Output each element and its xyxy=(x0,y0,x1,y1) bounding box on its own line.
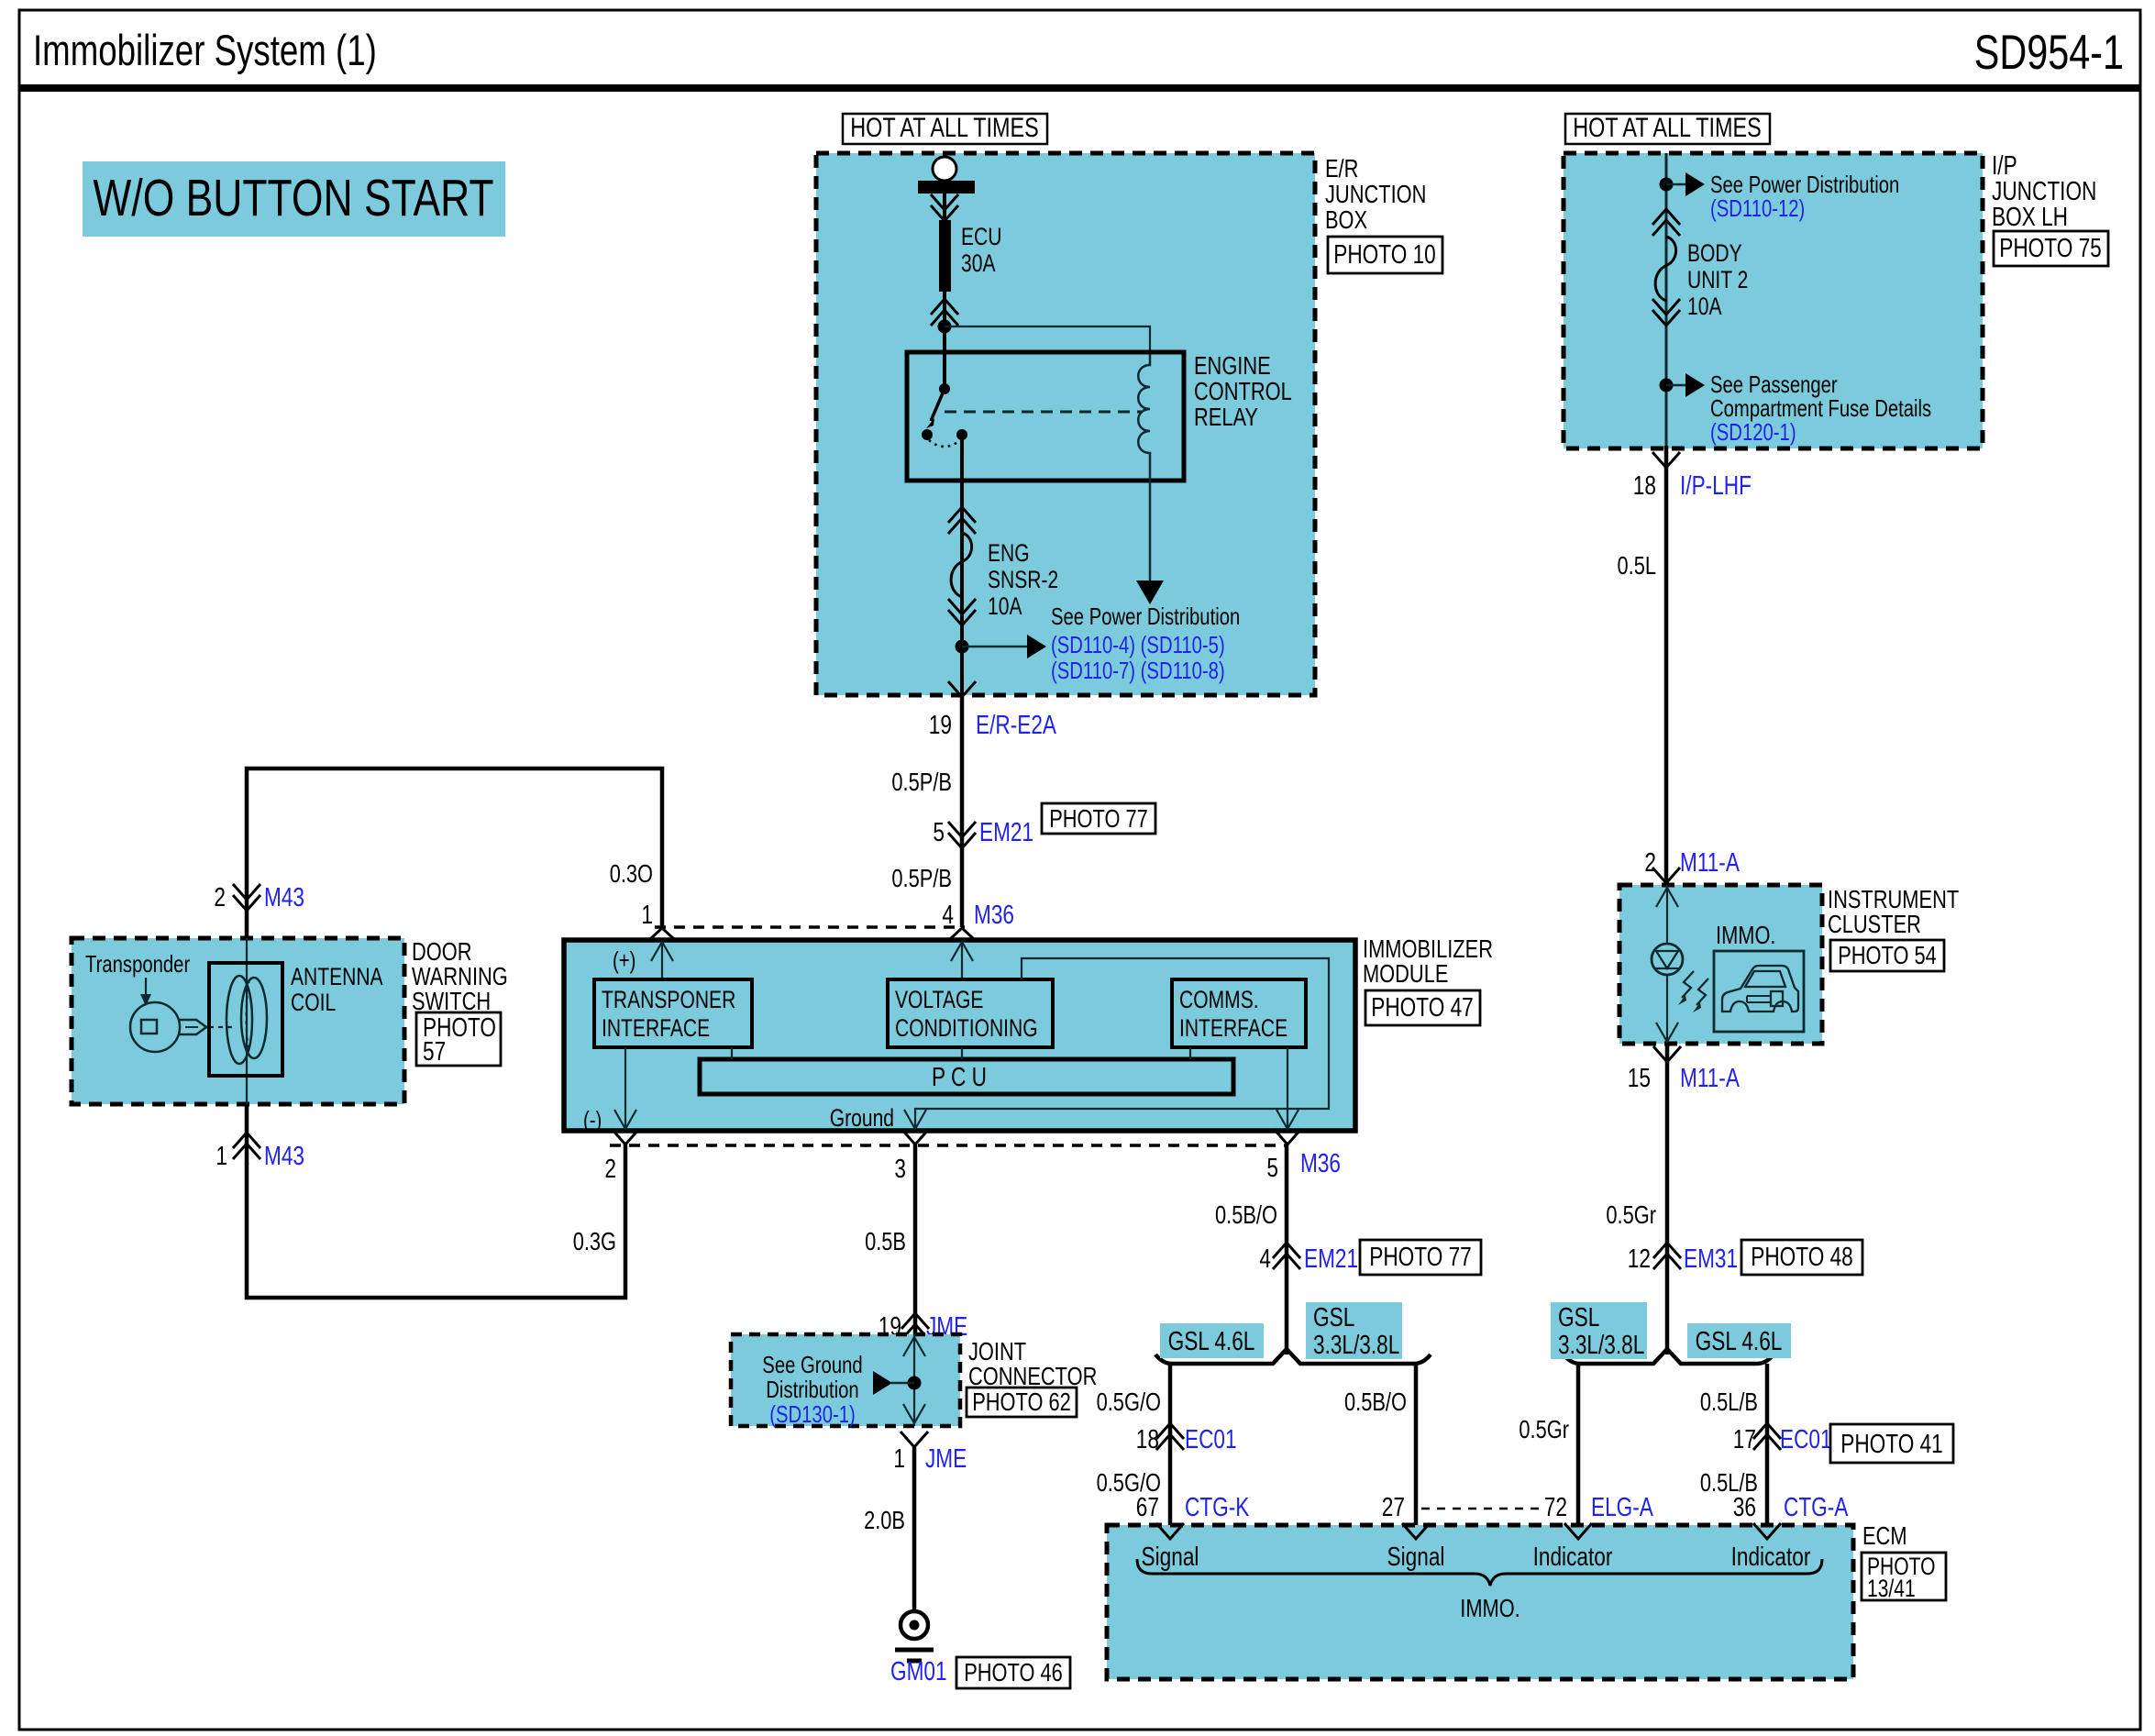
svg-text:0.5Gr: 0.5Gr xyxy=(1519,1415,1569,1443)
svg-text:HOT AT ALL TIMES: HOT AT ALL TIMES xyxy=(850,113,1039,143)
EM31 fork to GSL branches xyxy=(1564,1349,1774,1364)
wire pin2 loop to antenna xyxy=(247,1144,625,1298)
5 EM21 labels xyxy=(933,818,1033,847)
15 M11-A labels xyxy=(1628,1064,1741,1093)
svg-text:COIL: COIL xyxy=(291,989,336,1016)
svg-text:0.5P/B: 0.5P/B xyxy=(891,768,952,796)
svg-text:VOLTAGE: VOLTAGE xyxy=(895,986,983,1013)
transponer interface block xyxy=(594,979,752,1047)
svg-text:3.3L/3.8L: 3.3L/3.8L xyxy=(1313,1331,1399,1360)
svg-text:SD954-1: SD954-1 xyxy=(1974,26,2124,80)
svg-text:PHOTO 62: PHOTO 62 xyxy=(972,1388,1071,1416)
relay link dashed xyxy=(945,411,1143,414)
svg-text:57: 57 xyxy=(423,1037,446,1067)
svg-text:0.5B/O: 0.5B/O xyxy=(1344,1388,1407,1416)
svg-text:4: 4 xyxy=(942,901,954,930)
svg-text:(SD120-1): (SD120-1) xyxy=(1710,418,1796,446)
pin 5 chevron xyxy=(1274,1129,1301,1144)
connector 1 M43 chevrons xyxy=(233,1133,260,1159)
relay switch xyxy=(922,383,967,447)
svg-text:2: 2 xyxy=(604,1155,616,1184)
immobilizer module box xyxy=(564,940,1355,1131)
connector 2 M43 chevrons xyxy=(233,884,260,911)
ground distribution arrow and node xyxy=(873,1371,922,1395)
connector 18 EC01 chevrons xyxy=(1156,1423,1184,1450)
svg-text:CONNECTOR: CONNECTOR xyxy=(968,1362,1097,1390)
svg-text:1: 1 xyxy=(641,901,653,930)
svg-text:BOX: BOX xyxy=(1325,205,1367,234)
svg-text:(SD130-1): (SD130-1) xyxy=(769,1400,856,1428)
svg-text:2: 2 xyxy=(214,883,226,912)
see power distribution (SD110-12) xyxy=(1710,171,1899,222)
pin 5 M36 labels xyxy=(1266,1149,1341,1183)
svg-text:EM21: EM21 xyxy=(1304,1244,1358,1274)
HOT AT ALL TIMES label (right) xyxy=(1565,113,1770,144)
connector 5 EM21 chevrons xyxy=(948,822,976,848)
svg-text:3: 3 xyxy=(894,1155,906,1184)
chevron 2 M11-A xyxy=(1652,868,1680,883)
thin wire pin1 to transponer interface xyxy=(651,942,673,979)
wire cluster down to EM31 xyxy=(1665,1044,1670,1355)
relay coil xyxy=(1138,354,1150,481)
4 EM21 labels xyxy=(1259,1244,1358,1274)
PHOTO 77 label box (upper) xyxy=(1042,803,1155,834)
19 JME labels xyxy=(879,1312,967,1342)
1 JME labels xyxy=(893,1444,967,1474)
pin 3 chevron xyxy=(901,1129,929,1144)
HOT AT ALL TIMES label (center) xyxy=(843,113,1047,144)
wire fuse to relay xyxy=(943,292,946,389)
svg-text:36: 36 xyxy=(1733,1493,1756,1522)
svg-text:M36: M36 xyxy=(974,901,1014,930)
see ground distribution text xyxy=(762,1351,862,1428)
pin 2 chevron xyxy=(612,1129,639,1144)
svg-text:BOX LH: BOX LH xyxy=(1992,203,2068,232)
svg-text:I/P-LHF: I/P-LHF xyxy=(1680,471,1752,501)
thin wire LED to pin 15 xyxy=(1656,975,1678,1042)
arrow transponder to key xyxy=(140,978,151,1006)
svg-text:13/41: 13/41 xyxy=(1867,1575,1916,1602)
svg-text:SNSR-2: SNSR-2 xyxy=(988,566,1058,593)
svg-text:GSL 4.6L: GSL 4.6L xyxy=(1696,1327,1783,1356)
svg-text:(SD110-12): (SD110-12) xyxy=(1710,194,1805,222)
junction node I/P lower xyxy=(1660,379,1674,393)
svg-text:GSL: GSL xyxy=(1558,1303,1599,1332)
svg-text:M36: M36 xyxy=(1300,1149,1341,1178)
wire inside I/P box xyxy=(1665,153,1668,446)
svg-text:HOT AT ALL TIMES: HOT AT ALL TIMES xyxy=(1573,113,1762,143)
see power distribution text xyxy=(1051,603,1240,684)
svg-text:CTG-A: CTG-A xyxy=(1784,1493,1849,1522)
wire from antenna up and across to pin 1 xyxy=(247,768,662,938)
junction node xyxy=(938,320,952,334)
GSL 4.6L tag (right) xyxy=(1687,1323,1791,1358)
svg-text:TRANSPONER: TRANSPONER xyxy=(602,986,735,1013)
branch wire 72 ELG-A xyxy=(1576,1364,1581,1525)
transponder key symbol xyxy=(130,1002,206,1052)
arrow to power distribution (I/P) xyxy=(1666,172,1705,196)
svg-text:E/R: E/R xyxy=(1325,154,1358,182)
thin wire transponer (-) to pin 2 xyxy=(614,1047,636,1129)
pin 67 CTG-K labels xyxy=(1136,1493,1250,1522)
wire pin3 down to JME xyxy=(913,1144,918,1334)
svg-text:M43: M43 xyxy=(264,1142,304,1171)
svg-text:PHOTO 10: PHOTO 10 xyxy=(1333,240,1436,270)
wire JME to ground xyxy=(912,1447,917,1610)
junction node 2 xyxy=(956,640,969,654)
ECM box (dashed) xyxy=(1107,1525,1853,1679)
thin wire through coil box xyxy=(246,938,248,1104)
svg-text:P C U: P C U xyxy=(932,1063,987,1092)
joint connector box (dashed) xyxy=(731,1334,960,1426)
svg-text:GSL 4.6L: GSL 4.6L xyxy=(1168,1327,1255,1356)
svg-text:EC01: EC01 xyxy=(1185,1425,1237,1454)
connector chevrons below battery xyxy=(931,194,958,221)
svg-text:PHOTO 48: PHOTO 48 xyxy=(1751,1243,1853,1272)
arrow to power distribution xyxy=(962,635,1046,658)
svg-text:0.5B/O: 0.5B/O xyxy=(1215,1200,1277,1229)
wire coil to power-distribution arrow xyxy=(1149,481,1152,581)
thin wire comms to PCU xyxy=(1189,1047,1191,1059)
svg-text:67: 67 xyxy=(1136,1493,1159,1522)
svg-text:19: 19 xyxy=(929,711,952,740)
svg-text:Transponder: Transponder xyxy=(85,950,190,978)
svg-text:ANTENNA: ANTENNA xyxy=(291,963,383,990)
fuse ECU 30A xyxy=(939,220,1002,292)
svg-text:UNIT 2: UNIT 2 xyxy=(1687,266,1748,293)
svg-text:4: 4 xyxy=(1259,1244,1271,1274)
wire battery to fuse xyxy=(943,194,946,220)
svg-text:IMMO.: IMMO. xyxy=(1716,921,1776,949)
svg-text:0.5Gr: 0.5Gr xyxy=(1606,1200,1656,1229)
svg-text:0.3G: 0.3G xyxy=(573,1227,616,1255)
svg-text:PHOTO 77: PHOTO 77 xyxy=(1049,804,1148,833)
svg-text:Immobilizer System (1): Immobilizer System (1) xyxy=(33,26,377,74)
svg-text:1: 1 xyxy=(215,1142,227,1171)
2 M43 labels xyxy=(214,883,304,912)
PCU block xyxy=(700,1059,1233,1094)
svg-text:PHOTO 46: PHOTO 46 xyxy=(964,1658,1063,1686)
svg-text:EM21: EM21 xyxy=(979,818,1033,847)
svg-text:30A: 30A xyxy=(961,249,996,277)
svg-text:EM31: EM31 xyxy=(1684,1244,1738,1274)
svg-text:CONTROL: CONTROL xyxy=(1194,377,1292,405)
thin wire junction to relay coil xyxy=(945,326,1150,354)
pin 19 label E/R-E2A xyxy=(929,711,1057,740)
instrument cluster side labels xyxy=(1828,885,1959,938)
svg-text:PHOTO 41: PHOTO 41 xyxy=(1840,1430,1943,1459)
1 M43 labels xyxy=(215,1142,304,1171)
wire 19 to EM21 to M36 pin4 xyxy=(960,695,965,927)
EM21 fork to GSL branches xyxy=(1155,1349,1431,1364)
svg-text:Indicator: Indicator xyxy=(1533,1542,1613,1572)
svg-text:MODULE: MODULE xyxy=(1363,959,1448,988)
wire pin5 down to EM21 xyxy=(1285,1144,1289,1355)
PHOTO 10 label box xyxy=(1328,237,1442,273)
pin 18 I/P-LHF labels xyxy=(1633,471,1752,501)
svg-text:ENG: ENG xyxy=(988,539,1030,567)
svg-text:27: 27 xyxy=(1382,1493,1405,1522)
chevrons above fuse ENG SNSR-2 xyxy=(948,507,976,534)
svg-text:GSL: GSL xyxy=(1313,1303,1354,1332)
svg-text:ECM: ECM xyxy=(1862,1521,1907,1550)
PHOTO 57 label box xyxy=(416,1012,501,1067)
18 EC01 labels xyxy=(1136,1425,1237,1454)
svg-text:E/R-E2A: E/R-E2A xyxy=(976,711,1057,740)
module side labels xyxy=(1363,934,1493,988)
PHOTO 54 label box xyxy=(1830,940,1944,971)
svg-text:1: 1 xyxy=(893,1444,905,1474)
svg-text:0.5L/B: 0.5L/B xyxy=(1700,1388,1758,1416)
E/R junction box (dashed) xyxy=(816,153,1315,695)
svg-text:(SD110-4) (SD110-5): (SD110-4) (SD110-5) xyxy=(1051,631,1225,658)
svg-text:ENGINE: ENGINE xyxy=(1194,351,1271,380)
svg-text:IMMO.: IMMO. xyxy=(1460,1594,1520,1622)
svg-text:Signal: Signal xyxy=(1387,1542,1445,1572)
svg-text:Signal: Signal xyxy=(1142,1542,1199,1572)
see passenger compartment text xyxy=(1710,370,1931,446)
PHOTO 13/41 label box xyxy=(1862,1553,1946,1602)
svg-text:Indicator: Indicator xyxy=(1731,1542,1811,1572)
PHOTO 41 label box xyxy=(1830,1424,1953,1463)
ground routing thin wire xyxy=(904,958,1329,1129)
pin 2 M11-A labels xyxy=(1644,848,1740,878)
chevrons below fuse xyxy=(948,599,976,625)
W/O BUTTON START tag xyxy=(83,161,505,237)
svg-text:CLUSTER: CLUSTER xyxy=(1828,910,1921,938)
engine control relay box xyxy=(907,351,1292,481)
ANTENNA COIL label xyxy=(291,963,383,1016)
svg-text:5: 5 xyxy=(933,818,945,847)
pin 36 CTG-A labels xyxy=(1733,1493,1849,1522)
chevrons above fuse BODY UNIT 2 xyxy=(1652,209,1680,236)
chevron 15 M11-A xyxy=(1653,1046,1681,1062)
svg-text:INTERFACE: INTERFACE xyxy=(602,1014,710,1042)
svg-text:W/O BUTTON START: W/O BUTTON START xyxy=(93,169,493,227)
voltage conditioning block xyxy=(888,979,1053,1047)
svg-text:ECU: ECU xyxy=(961,223,1002,250)
ground GM01 xyxy=(895,1611,934,1661)
svg-text:M11-A: M11-A xyxy=(1680,848,1740,878)
svg-text:2.0B: 2.0B xyxy=(864,1506,905,1534)
wire relay contact down xyxy=(960,435,964,695)
svg-text:18: 18 xyxy=(1633,471,1656,501)
17 EC01 labels xyxy=(1733,1425,1832,1454)
pin 36 chevron xyxy=(1753,1523,1781,1539)
connector 19 JME chevrons xyxy=(901,1313,929,1340)
junction node I/P top xyxy=(1660,178,1674,192)
svg-text:0.5B: 0.5B xyxy=(865,1227,906,1255)
chevrons above junction xyxy=(931,299,958,326)
svg-text:0.3O: 0.3O xyxy=(610,859,653,888)
dashed link 27 to 72 xyxy=(1421,1508,1546,1510)
svg-text:See Power Distribution: See Power Distribution xyxy=(1051,603,1240,630)
svg-text:5: 5 xyxy=(1266,1154,1278,1183)
fuse ENG SNSR-2 10A xyxy=(951,533,1058,620)
svg-text:0.5G/O: 0.5G/O xyxy=(1097,1388,1161,1416)
connector 12 EM31 chevrons xyxy=(1653,1243,1681,1269)
arrow to passenger fuse details xyxy=(1666,373,1705,397)
svg-text:CTG-K: CTG-K xyxy=(1185,1493,1250,1522)
svg-text:RELAY: RELAY xyxy=(1194,403,1258,431)
svg-text:(+): (+) xyxy=(613,946,635,974)
E/R junction box side labels xyxy=(1325,154,1426,234)
branch wire 67 CTG-K xyxy=(1168,1364,1173,1525)
svg-text:PHOTO 75: PHOTO 75 xyxy=(1999,234,2102,263)
battery feed terminal xyxy=(918,157,975,194)
GSL 3.3L/3.8L tag (right pair) xyxy=(1551,1302,1647,1360)
PHOTO 77 label box (lower) xyxy=(1360,1240,1481,1275)
I/P junction box LH (dashed) xyxy=(1564,153,1983,448)
svg-text:10A: 10A xyxy=(1687,293,1722,320)
branch wire 27 xyxy=(1414,1364,1419,1525)
exit chevron 18 xyxy=(1652,452,1680,468)
pin 67 chevron xyxy=(1156,1523,1184,1539)
pin 72 chevron xyxy=(1564,1523,1592,1539)
svg-text:0.5L: 0.5L xyxy=(1618,551,1657,580)
pin 4 chevron xyxy=(950,928,974,939)
svg-text:72: 72 xyxy=(1544,1493,1567,1522)
pin 4 M36 labels xyxy=(942,901,1014,930)
thin wire comms to pin 5 xyxy=(1276,1047,1299,1129)
chevrons below fuse (I/P) xyxy=(1652,299,1680,326)
PHOTO 47 label box xyxy=(1365,990,1480,1025)
connector 4 EM21 chevrons xyxy=(1273,1243,1300,1269)
bottom dashed connector line M36 xyxy=(610,1144,1287,1147)
PHOTO 75 label box xyxy=(1994,231,2108,266)
svg-text:2: 2 xyxy=(1644,848,1656,878)
car warning lamp icon xyxy=(1714,951,1804,1032)
PHOTO 62 label box xyxy=(967,1388,1077,1417)
svg-text:COMMS.: COMMS. xyxy=(1179,986,1259,1013)
GSL 3.3L/3.8L tag (left pair) xyxy=(1306,1302,1402,1360)
svg-text:SWITCH: SWITCH xyxy=(412,987,491,1015)
pin 72 ELG-A labels xyxy=(1544,1493,1654,1522)
antenna coil core box xyxy=(209,963,282,1076)
svg-text:Ground: Ground xyxy=(830,1104,894,1132)
top dashed connector line M36 xyxy=(655,925,965,929)
door warning switch / antenna coil box (dashed) xyxy=(72,938,404,1104)
svg-text:0.5P/B: 0.5P/B xyxy=(891,864,952,892)
light emission arrows xyxy=(1678,971,1708,1012)
svg-text:(SD110-7) (SD110-8): (SD110-7) (SD110-8) xyxy=(1051,657,1225,684)
svg-text:(-): (-) xyxy=(583,1106,602,1133)
title separator bar xyxy=(18,84,2141,92)
svg-text:GM01: GM01 xyxy=(890,1657,947,1686)
svg-text:INTERFACE: INTERFACE xyxy=(1179,1014,1287,1042)
chevron 1 JME xyxy=(901,1432,928,1447)
fuse BODY UNIT 2 10A xyxy=(1655,237,1748,320)
svg-text:3.3L/3.8L: 3.3L/3.8L xyxy=(1558,1331,1644,1360)
PHOTO 48 label box xyxy=(1741,1240,1862,1275)
wire below antenna box xyxy=(245,1104,249,1165)
svg-text:M11-A: M11-A xyxy=(1680,1064,1740,1093)
svg-text:JUNCTION: JUNCTION xyxy=(1325,180,1426,208)
svg-text:18: 18 xyxy=(1136,1425,1159,1454)
svg-text:Distribution: Distribution xyxy=(766,1376,858,1403)
GSL 4.6L tag (left) xyxy=(1160,1323,1264,1358)
wire 18 down to instrument cluster xyxy=(1664,446,1669,885)
svg-text:15: 15 xyxy=(1628,1064,1651,1093)
svg-text:EC01: EC01 xyxy=(1780,1425,1832,1454)
svg-text:10A: 10A xyxy=(988,592,1022,620)
dashed link key to coil xyxy=(209,1026,237,1028)
svg-text:PHOTO 47: PHOTO 47 xyxy=(1371,993,1474,1023)
branch wire 36 CTG-A xyxy=(1765,1364,1770,1525)
thin wire into LED xyxy=(1656,885,1678,944)
exit chevron 19 xyxy=(948,681,976,697)
svg-text:BODY: BODY xyxy=(1687,239,1742,267)
I/P box side labels xyxy=(1992,151,2096,232)
pin 27 chevron xyxy=(1402,1523,1430,1539)
joint connector side labels xyxy=(968,1337,1097,1390)
pin 1 chevron xyxy=(650,928,674,939)
svg-text:See Ground: See Ground xyxy=(762,1351,862,1378)
svg-text:PHOTO 77: PHOTO 77 xyxy=(1369,1243,1472,1272)
thin wire pin4 to voltage conditioning xyxy=(951,942,973,979)
PHOTO 46 label box xyxy=(956,1657,1070,1688)
thin wire transponer to PCU xyxy=(731,1047,733,1059)
IMMO brace xyxy=(1137,1559,1822,1586)
svg-text:JME: JME xyxy=(925,1444,967,1474)
comms interface block xyxy=(1172,979,1306,1047)
12 EM31 labels xyxy=(1628,1244,1738,1274)
IMMO indicator LED xyxy=(1652,944,1683,975)
svg-text:12: 12 xyxy=(1628,1244,1651,1274)
svg-text:17: 17 xyxy=(1733,1425,1756,1454)
svg-text:PHOTO 54: PHOTO 54 xyxy=(1838,941,1937,969)
connector 17 EC01 chevrons xyxy=(1753,1423,1781,1450)
thin wire through joint connector xyxy=(903,1334,925,1426)
instrument cluster box (dashed) xyxy=(1619,885,1822,1044)
thin wire voltage to PCU xyxy=(961,1047,963,1059)
svg-text:ELG-A: ELG-A xyxy=(1591,1493,1653,1522)
door warning switch side labels xyxy=(412,937,508,1015)
svg-text:M43: M43 xyxy=(264,883,304,912)
svg-text:CONDITIONING: CONDITIONING xyxy=(895,1014,1038,1042)
